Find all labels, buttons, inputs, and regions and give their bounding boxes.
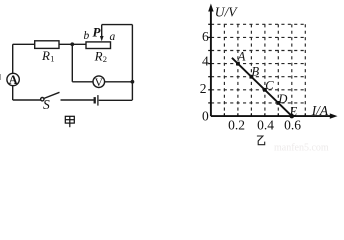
svg-text:0.6: 0.6 — [284, 117, 301, 132]
svg-text:4: 4 — [202, 54, 209, 69]
svg-text:V: V — [95, 77, 104, 89]
svg-text:S: S — [43, 97, 50, 112]
svg-text:C: C — [265, 79, 274, 93]
svg-text:0.4: 0.4 — [257, 117, 274, 132]
svg-text:2: 2 — [200, 81, 207, 96]
svg-text:b: b — [84, 30, 90, 42]
svg-text:1: 1 — [50, 54, 54, 64]
svg-text:0: 0 — [202, 109, 209, 124]
svg-text:6: 6 — [202, 29, 209, 44]
svg-text:manfen5.com: manfen5.com — [274, 143, 329, 153]
svg-text:B: B — [252, 65, 260, 79]
svg-text:2: 2 — [103, 54, 107, 64]
svg-text:A: A — [9, 73, 18, 87]
svg-text:A: A — [237, 49, 246, 63]
svg-text:0.2: 0.2 — [228, 117, 245, 132]
svg-text:I/A: I/A — [311, 103, 329, 118]
svg-text:U/V: U/V — [215, 5, 239, 20]
svg-text:P: P — [93, 25, 102, 40]
svg-text:a: a — [110, 31, 116, 43]
svg-text:E: E — [289, 104, 298, 118]
svg-text:D: D — [277, 92, 287, 106]
svg-text:R: R — [94, 48, 103, 63]
svg-text:R: R — [41, 48, 50, 63]
